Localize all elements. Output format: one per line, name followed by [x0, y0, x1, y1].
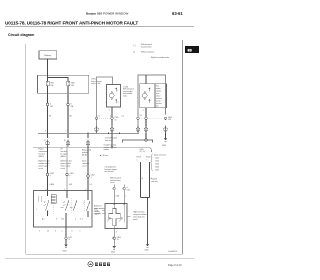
svg-text:10: 10	[47, 231, 49, 233]
svg-text:window: window	[156, 88, 161, 90]
svg-text:13: 13	[117, 239, 119, 241]
svg-text:C 4: C 4	[80, 219, 83, 221]
svg-text:(F8/15): (F8/15)	[39, 156, 45, 158]
svg-text:signal: signal	[95, 214, 100, 216]
svg-text:1: 1	[137, 159, 138, 161]
svg-text:C305: C305	[115, 117, 119, 119]
svg-text:13: 13	[115, 119, 117, 121]
svg-text:C204: C204	[155, 167, 159, 169]
svg-text:63-61: 63-61	[172, 11, 183, 16]
svg-text:G301: G301	[168, 117, 172, 119]
svg-text:0.85: 0.85	[69, 184, 72, 186]
svg-text:U0115-78, U0116-78 RIGHT FRONT: U0115-78, U0116-78 RIGHT FRONT ANTI-PINC…	[5, 20, 138, 25]
svg-text:I/P: I/P	[61, 149, 63, 151]
svg-text:(⎯⎯): (⎯⎯)	[133, 45, 136, 47]
svg-text:G301: G301	[162, 145, 166, 147]
svg-text:1: 1	[147, 159, 148, 161]
svg-text:0.5B: 0.5B	[116, 196, 119, 198]
svg-text:G401: G401	[111, 252, 115, 254]
svg-text:C202: C202	[155, 161, 159, 163]
svg-text:C201: C201	[155, 158, 159, 160]
svg-text:12 | 13: 12 | 13	[140, 151, 145, 153]
svg-text:6: 6	[75, 219, 76, 221]
svg-text:(FB30): (FB30)	[61, 156, 66, 158]
svg-text:G401: G401	[145, 250, 149, 252]
svg-text:C40: C40	[69, 237, 72, 239]
svg-text:0.5: 0.5	[90, 184, 92, 186]
svg-text:L: L	[126, 196, 127, 198]
svg-text:G202: G202	[63, 251, 67, 253]
svg-text:4: 4	[91, 177, 92, 179]
svg-text:2 C401: 2 C401	[123, 86, 128, 88]
svg-text:0.5: 0.5	[122, 116, 124, 118]
svg-text:C/B: C/B	[50, 106, 53, 108]
svg-text:module: module	[82, 152, 87, 154]
svg-text:8: 8	[71, 104, 72, 106]
svg-text:module: module	[104, 149, 109, 151]
svg-text:63: 63	[188, 49, 192, 53]
svg-text:C406: C406	[117, 237, 121, 239]
svg-text:pinch): pinch)	[133, 219, 138, 221]
svg-text:C30: C30	[168, 119, 171, 121]
svg-text:0.85B: 0.85B	[50, 184, 54, 186]
svg-text:Engine: Engine	[39, 149, 44, 151]
svg-text:C205: C205	[155, 170, 159, 172]
svg-text:FB30: FB30	[71, 83, 75, 85]
svg-text:2: 2	[109, 110, 110, 112]
svg-text:1 F8/15: 1 F8/15	[91, 79, 96, 81]
svg-text:0.5: 0.5	[98, 116, 100, 118]
svg-text:4: 4	[50, 104, 51, 106]
svg-text:C203: C203	[155, 164, 159, 166]
svg-text:C305: C305	[140, 149, 144, 151]
svg-text:2: 2	[143, 110, 144, 112]
svg-text:POWER WINDOW: POWER WINDOW	[103, 12, 128, 16]
svg-text:C302: C302	[91, 175, 95, 177]
svg-text:Baojun 510: Baojun 510	[86, 12, 102, 16]
svg-text:LawB4537: LawB4537	[168, 251, 178, 253]
svg-text:Page 8 of 10: Page 8 of 10	[168, 264, 182, 267]
svg-text:Circuit diagram: Circuit diagram	[8, 33, 34, 37]
svg-text:11: 11	[69, 239, 71, 241]
svg-text:fuse box: fuse box	[61, 151, 67, 153]
svg-text:C302: C302	[50, 173, 54, 175]
svg-text:FB15: FB15	[51, 83, 55, 85]
svg-text:C302: C302	[70, 173, 74, 175]
svg-text:On/Off: On/Off	[136, 157, 141, 159]
svg-text:C40: C40	[127, 189, 130, 191]
svg-text:1: 1	[127, 187, 128, 189]
svg-text:(BCM): (BCM)	[82, 155, 87, 157]
svg-text:B: B	[142, 178, 143, 180]
svg-text:17: 17	[44, 140, 46, 142]
svg-text:B 2: B 2	[62, 219, 65, 221]
svg-text:0.5: 0.5	[140, 115, 142, 117]
svg-text:fuse box: fuse box	[39, 154, 45, 156]
svg-text:9: 9	[70, 175, 71, 177]
svg-text:7: 7	[50, 175, 51, 177]
svg-text:Battery: Battery	[45, 54, 53, 57]
svg-text:C/B: C/B	[71, 106, 74, 108]
svg-text:3: 3	[56, 219, 57, 221]
svg-text:16: 16	[64, 140, 66, 142]
